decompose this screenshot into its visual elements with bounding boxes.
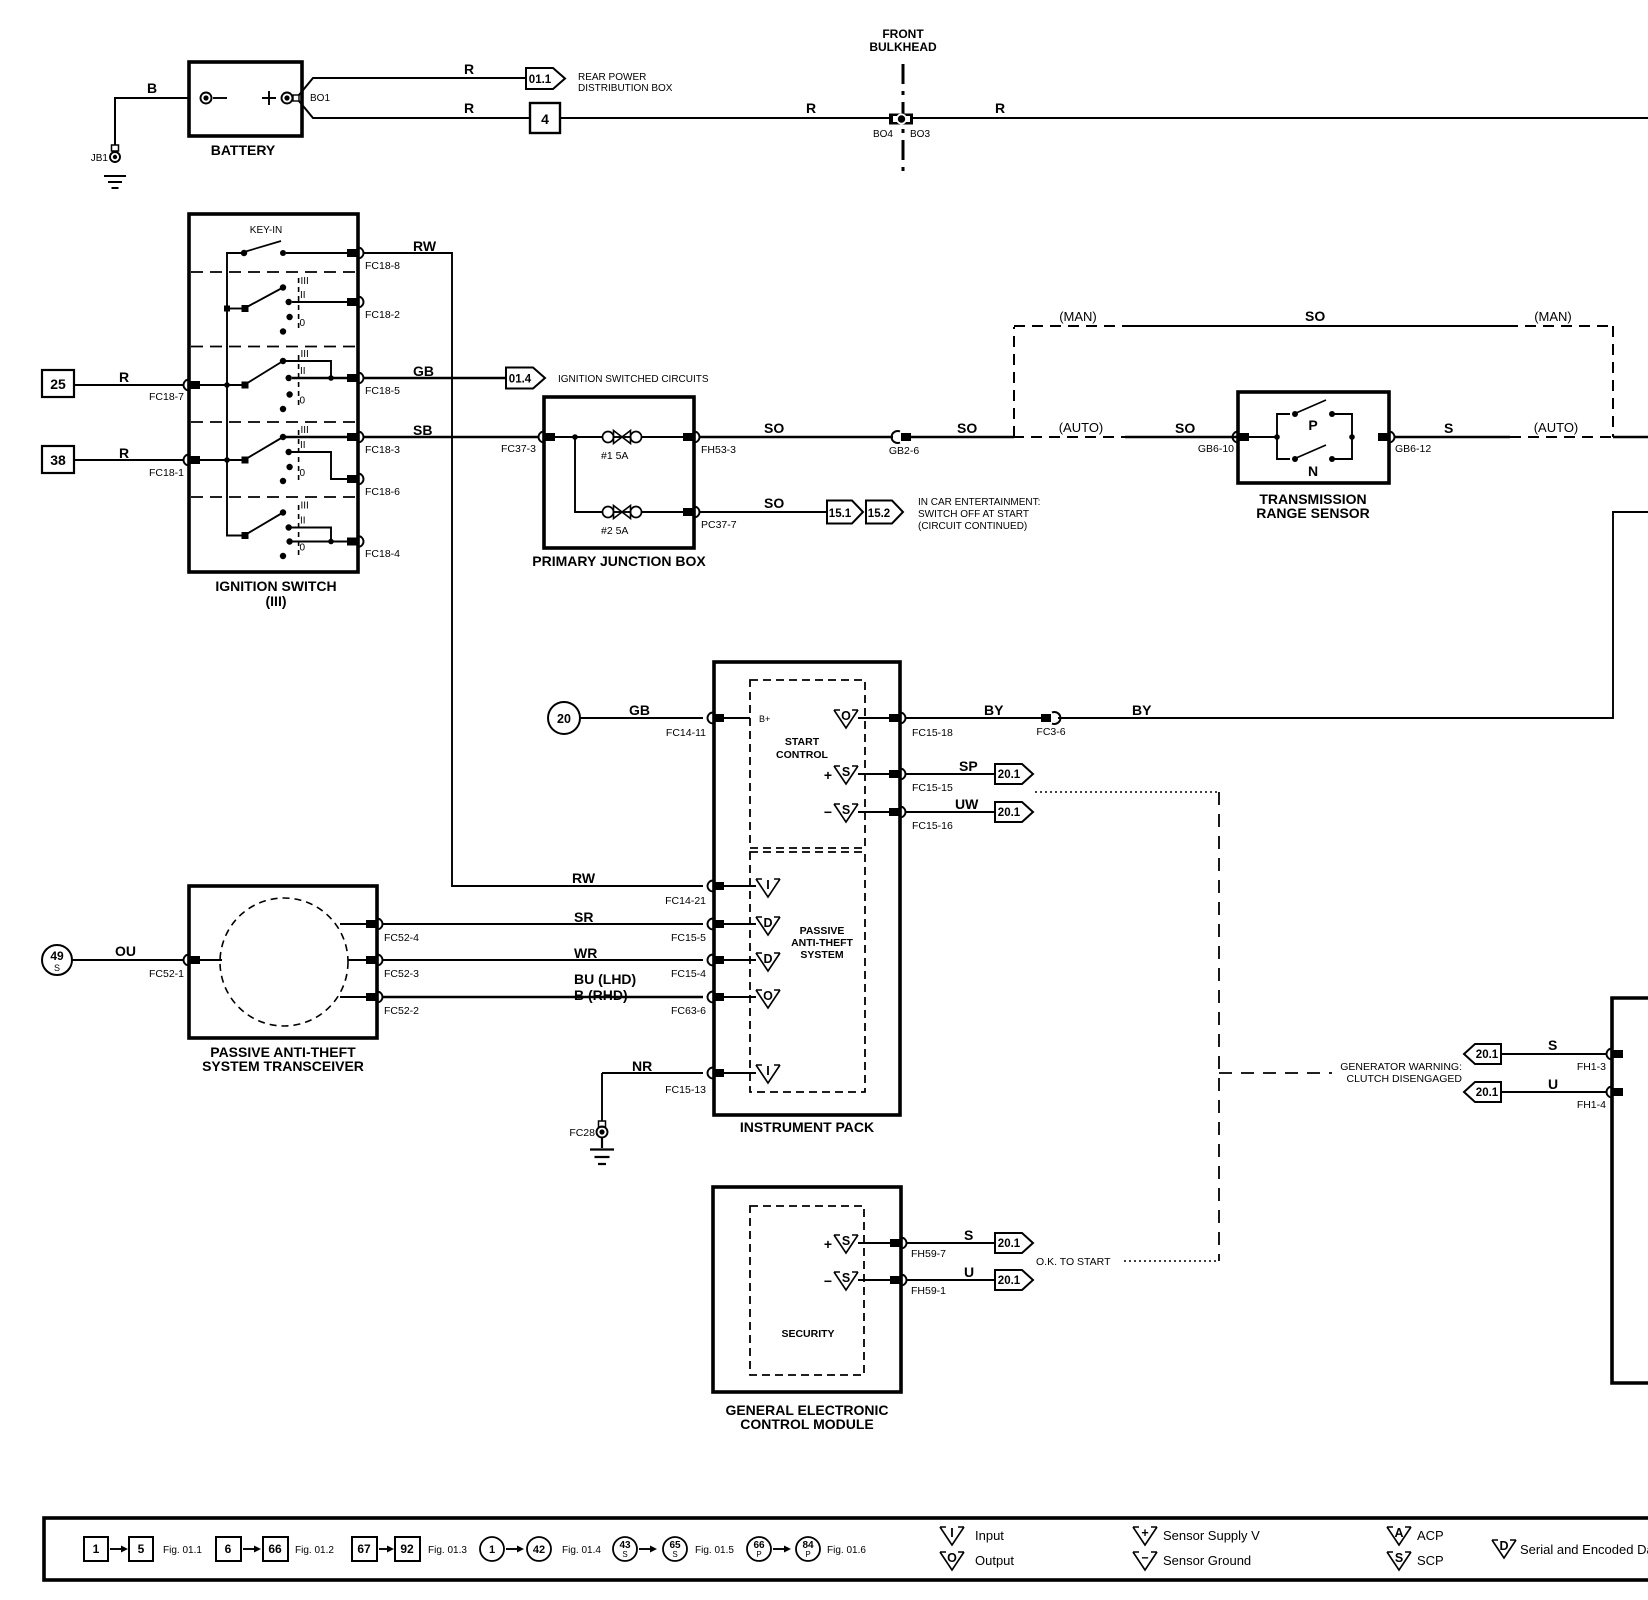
connector 20.1 (SP) <box>995 764 1033 784</box>
svg-text:P: P <box>805 1550 810 1559</box>
connector 20.1 (S) <box>995 1233 1033 1253</box>
svg-text:FRONT: FRONT <box>882 27 924 41</box>
svg-text:IGNITION SWITCH: IGNITION SWITCH <box>215 578 336 594</box>
svg-text:FC18-4: FC18-4 <box>365 548 400 560</box>
svg-text:S: S <box>1444 420 1453 436</box>
svg-text:U: U <box>964 1264 974 1280</box>
svg-text:1: 1 <box>489 1544 495 1556</box>
svg-text:FC37-3: FC37-3 <box>501 443 536 455</box>
svg-text:S: S <box>964 1227 973 1243</box>
serial data symbol D (SR) <box>756 916 780 935</box>
svg-text:+: + <box>824 1236 832 1252</box>
svg-text:FC14-11: FC14-11 <box>666 727 706 739</box>
link dashed branch (generator warning) <box>1219 1072 1332 1074</box>
svg-text:FC52-3: FC52-3 <box>384 968 419 980</box>
svg-text:SO: SO <box>957 420 977 436</box>
svg-text:GB6-10: GB6-10 <box>1198 443 1234 455</box>
wire RW from FC18-8 down to instrument pack <box>363 238 703 886</box>
svg-text:(CIRCUIT CONTINUED): (CIRCUIT CONTINUED) <box>918 521 1027 532</box>
legend input symbol <box>940 1526 1004 1545</box>
svg-text:FH59-7: FH59-7 <box>911 1248 946 1260</box>
svg-text:S: S <box>1395 1551 1403 1565</box>
connector 20.1 (UW) <box>995 802 1033 822</box>
battery negative terminal <box>201 93 228 104</box>
connector 20.1 (U) <box>995 1270 1033 1290</box>
svg-text:6: 6 <box>225 1542 232 1556</box>
svg-text:B: B <box>147 80 157 96</box>
svg-text:FC18-6: FC18-6 <box>365 486 400 498</box>
front bulkhead <box>869 27 937 172</box>
svg-text:FC15-15: FC15-15 <box>912 782 953 794</box>
svg-text:20.1: 20.1 <box>1476 1049 1499 1061</box>
legend item fig 01.5 <box>613 1537 734 1561</box>
svg-text:RW: RW <box>572 870 596 886</box>
transceiver coil (dashed circle) <box>220 898 348 1026</box>
svg-text:BO1: BO1 <box>310 93 330 104</box>
svg-text:Sensor Supply V: Sensor Supply V <box>1163 1528 1260 1543</box>
pin FC15-15 <box>889 769 953 795</box>
sensor supply symbol +S (security) <box>824 1234 890 1253</box>
svg-text:R: R <box>119 369 129 385</box>
svg-text:Input: Input <box>975 1528 1004 1543</box>
wire SP to 20.1 <box>905 758 995 774</box>
svg-text:ANTI-THEFT: ANTI-THEFT <box>791 937 853 949</box>
svg-text:P: P <box>1308 417 1317 433</box>
svg-text:U: U <box>1548 1076 1558 1092</box>
svg-text:−: − <box>824 1273 832 1289</box>
svg-text:IN CAR ENTERTAINMENT:: IN CAR ENTERTAINMENT: <box>918 497 1040 508</box>
svg-text:FC28: FC28 <box>569 1127 595 1139</box>
svg-text:20.1: 20.1 <box>998 1238 1021 1250</box>
svg-text:Fig. 01.2: Fig. 01.2 <box>295 1545 334 1556</box>
wire (AUTO) SO to transmission range sensor <box>1013 420 1239 437</box>
svg-text:Output: Output <box>975 1553 1014 1568</box>
svg-text:R: R <box>995 100 1005 116</box>
pin GB6-12 <box>1378 432 1431 456</box>
svg-text:GB2-6: GB2-6 <box>889 445 920 457</box>
svg-text:KEY-IN: KEY-IN <box>250 225 282 236</box>
svg-text:REAR POWER: REAR POWER <box>578 72 646 83</box>
svg-text:20.1: 20.1 <box>998 807 1021 819</box>
ignition switch section 2 <box>224 276 347 335</box>
svg-text:0: 0 <box>300 396 306 407</box>
svg-text:38: 38 <box>50 452 66 468</box>
primary junction box <box>532 397 706 569</box>
svg-text:GB: GB <box>413 363 434 379</box>
link dotted line (O.K. TO START) <box>1124 1260 1219 1262</box>
pin FC15-4 <box>671 955 756 981</box>
svg-text:Fig. 01.5: Fig. 01.5 <box>695 1545 734 1556</box>
svg-text:II: II <box>300 290 306 301</box>
pin FC14-21 <box>665 881 756 908</box>
svg-text:GENERATOR WARNING:: GENERATOR WARNING: <box>1340 1061 1462 1073</box>
svg-text:SO: SO <box>1305 308 1325 324</box>
svg-text:NR: NR <box>632 1058 652 1074</box>
legend sensor supply symbol <box>1133 1526 1260 1545</box>
svg-text:O: O <box>841 709 851 723</box>
wire BY to FC3-6 <box>905 702 1041 718</box>
svg-text:1: 1 <box>93 1542 100 1556</box>
junction node in junction box <box>555 434 602 512</box>
legend ACP symbol <box>1387 1526 1444 1545</box>
passive anti-theft system block <box>750 852 865 1092</box>
svg-text:(AUTO): (AUTO) <box>1534 420 1579 435</box>
battery positive terminal <box>262 91 293 105</box>
svg-text:WR: WR <box>574 945 597 961</box>
svg-text:(MAN): (MAN) <box>1534 309 1572 324</box>
svg-text:FC15-13: FC15-13 <box>665 1084 706 1096</box>
switch P <box>1249 400 1352 440</box>
svg-text:+: + <box>824 767 832 783</box>
legend SCP symbol <box>1387 1551 1444 1570</box>
svg-text:20.1: 20.1 <box>998 769 1021 781</box>
pin FC18-7 <box>149 380 200 404</box>
svg-text:92: 92 <box>400 1542 414 1556</box>
connector box 25 <box>42 370 74 397</box>
svg-text:FC52-4: FC52-4 <box>384 932 419 944</box>
svg-text:IGNITION SWITCHED CIRCUITS: IGNITION SWITCHED CIRCUITS <box>558 374 709 385</box>
svg-text:01.1: 01.1 <box>529 74 552 86</box>
svg-text:GB6-12: GB6-12 <box>1395 443 1431 455</box>
svg-text:S: S <box>672 1550 677 1559</box>
svg-text:R: R <box>119 445 129 461</box>
svg-text:B (RHD): B (RHD) <box>574 987 628 1003</box>
svg-text:20.1: 20.1 <box>1476 1087 1499 1099</box>
wire NR <box>602 1058 703 1121</box>
svg-text:4: 4 <box>541 111 549 127</box>
fuse #2 5A <box>601 506 683 538</box>
svg-text:FC18-8: FC18-8 <box>365 260 400 272</box>
sensor ground symbol -S (security) <box>824 1271 890 1290</box>
svg-text:49: 49 <box>50 949 64 963</box>
svg-text:25: 25 <box>50 376 66 392</box>
start control block <box>750 680 865 848</box>
connector 15.1 <box>827 501 863 524</box>
pin FC37-3 <box>501 432 555 456</box>
svg-text:S: S <box>842 1271 850 1285</box>
svg-text:CONTROL: CONTROL <box>776 749 828 761</box>
eyelet JB1 <box>91 145 120 164</box>
wire S from GB6-12 <box>1394 420 1648 437</box>
svg-text:A: A <box>1394 1526 1403 1540</box>
svg-text:BY: BY <box>1132 702 1152 718</box>
legend sensor ground symbol <box>1133 1551 1251 1570</box>
pin FC63-6 <box>671 992 756 1018</box>
wire U to FH1-4 <box>1501 1076 1607 1092</box>
legend serial data symbol <box>1492 1539 1648 1558</box>
svg-text:START: START <box>785 736 820 748</box>
pin FC52-3 <box>348 955 419 981</box>
svg-text:PRIMARY JUNCTION BOX: PRIMARY JUNCTION BOX <box>532 553 706 569</box>
svg-text:+: + <box>1141 1526 1148 1540</box>
wire GB from 20 to FC14-11 <box>580 702 703 718</box>
wire BU/B from transceiver <box>382 971 703 1003</box>
svg-text:15.1: 15.1 <box>829 508 852 520</box>
svg-text:BATTERY: BATTERY <box>211 142 276 158</box>
wire UW to 20.1 <box>905 796 995 812</box>
pin FC52-1 <box>149 955 222 981</box>
svg-text:III: III <box>301 276 309 287</box>
svg-text:I: I <box>766 1064 769 1078</box>
wire U to 20.1 <box>906 1264 995 1280</box>
ground (instrument pack) <box>590 1138 614 1165</box>
svg-text:RW: RW <box>413 238 437 254</box>
connector 01.1 <box>526 68 673 94</box>
svg-text:I: I <box>950 1526 953 1540</box>
fuse #1 5A <box>601 431 683 463</box>
connector 4 <box>530 103 560 133</box>
legend item fig 01.1 <box>84 1537 202 1561</box>
svg-text:SO: SO <box>1175 420 1195 436</box>
wire R to connector 4 <box>299 100 530 118</box>
pin FH59-7 <box>890 1238 946 1261</box>
wire SB to primary junction box <box>363 422 539 438</box>
wire SO from PC37-7 to 15.1 <box>699 495 827 512</box>
pin FC15-5 <box>671 919 756 945</box>
svg-text:01.4: 01.4 <box>509 374 532 386</box>
pin FC15-18 <box>889 713 953 740</box>
svg-text:O: O <box>763 989 773 1003</box>
sensor ground symbol -S (start control) <box>824 803 889 822</box>
svg-text:FC63-6: FC63-6 <box>671 1005 706 1017</box>
connector GB2-6 <box>889 431 920 457</box>
pin PC37-7 <box>683 507 737 532</box>
svg-text:66: 66 <box>268 1542 282 1556</box>
svg-text:DISTRIBUTION BOX: DISTRIBUTION BOX <box>578 83 673 94</box>
svg-text:20: 20 <box>557 712 571 726</box>
node 49 S <box>42 945 72 975</box>
ignition switch section 4 <box>200 425 347 484</box>
svg-text:O: O <box>947 1551 957 1565</box>
svg-text:CONTROL MODULE: CONTROL MODULE <box>740 1416 874 1432</box>
svg-text:BO4: BO4 <box>873 129 893 140</box>
svg-text:FC18-5: FC18-5 <box>365 385 400 397</box>
svg-text:SB: SB <box>413 422 432 438</box>
svg-text:JB1: JB1 <box>91 153 109 164</box>
pin FC18-3 <box>347 432 400 457</box>
svg-text:SWITCH OFF AT START: SWITCH OFF AT START <box>918 509 1029 520</box>
starter relay box (edge) <box>1612 998 1648 1383</box>
pin FC18-5 <box>347 373 400 398</box>
pin FC18-8 <box>347 248 400 273</box>
connector box 38 <box>42 446 74 473</box>
svg-text:FC18-7: FC18-7 <box>149 391 184 403</box>
svg-text:(MAN): (MAN) <box>1059 309 1097 324</box>
svg-text:(AUTO): (AUTO) <box>1059 420 1104 435</box>
svg-text:Fig. 01.6: Fig. 01.6 <box>827 1545 866 1556</box>
wire BY to right edge <box>1058 512 1648 718</box>
svg-text:0: 0 <box>300 318 306 329</box>
connector 01.4 <box>506 368 709 389</box>
svg-text:II: II <box>300 516 306 527</box>
svg-text:FC14-21: FC14-21 <box>665 895 706 907</box>
svg-text:FH1-4: FH1-4 <box>1577 1099 1606 1111</box>
svg-text:Fig. 01.1: Fig. 01.1 <box>163 1545 202 1556</box>
svg-text:FC15-18: FC15-18 <box>912 727 953 739</box>
legend output symbol <box>940 1551 1014 1570</box>
svg-text:Fig. 01.3: Fig. 01.3 <box>428 1545 467 1556</box>
pin FH1-4 <box>1577 1087 1623 1112</box>
svg-text:D: D <box>763 916 772 930</box>
svg-text:UW: UW <box>955 796 979 812</box>
svg-text:R: R <box>464 100 474 116</box>
pin FC18-2 <box>347 297 400 322</box>
svg-text:BY: BY <box>984 702 1004 718</box>
ground (battery) <box>104 176 126 188</box>
pin FC15-13 <box>665 1068 756 1097</box>
svg-text:III: III <box>301 349 309 360</box>
legend item fig 01.4 <box>480 1537 601 1561</box>
svg-text:S: S <box>842 1234 850 1248</box>
switch N <box>1277 434 1355 479</box>
link dotted line (SP/UW pair) <box>1035 791 1219 793</box>
note GENERATOR WARNING <box>1340 1061 1462 1085</box>
svg-text:SYSTEM: SYSTEM <box>800 949 843 961</box>
pin FC18-1 <box>149 455 200 480</box>
svg-text:ACP: ACP <box>1417 1528 1444 1543</box>
svg-text:S: S <box>842 803 850 817</box>
svg-text:FH59-1: FH59-1 <box>911 1285 946 1297</box>
legend item fig 01.3 <box>352 1537 467 1561</box>
pin FC15-16 <box>889 807 953 833</box>
serial data symbol D (WR) <box>756 952 780 971</box>
svg-text:FC15-5: FC15-5 <box>671 932 706 944</box>
input symbol I (NR) <box>756 1064 780 1083</box>
wire SO to split <box>911 420 1014 437</box>
svg-text:R: R <box>806 100 816 116</box>
svg-text:−: − <box>1141 1551 1148 1565</box>
instrument pack box <box>714 662 900 1135</box>
svg-text:SO: SO <box>764 420 784 436</box>
wire R from 38 to FC18-1 <box>74 445 184 461</box>
svg-text:D: D <box>1499 1539 1508 1553</box>
svg-text:SO: SO <box>764 495 784 511</box>
wire B from battery to JB1 <box>115 80 189 145</box>
svg-text:−: − <box>824 804 832 820</box>
pin FC18-4 <box>347 536 400 560</box>
svg-text:II: II <box>300 440 306 451</box>
svg-text:67: 67 <box>357 1542 371 1556</box>
connector BO1 <box>293 93 330 104</box>
svg-text:5: 5 <box>138 1542 145 1556</box>
svg-text:FC18-1: FC18-1 <box>149 467 184 479</box>
battery <box>189 62 302 158</box>
wire OU <box>72 943 184 960</box>
svg-text:FH53-3: FH53-3 <box>701 444 736 456</box>
svg-text:OU: OU <box>115 943 136 959</box>
security block <box>750 1206 864 1375</box>
svg-text:#1 5A: #1 5A <box>601 450 628 462</box>
svg-text:SYSTEM TRANSCEIVER: SYSTEM TRANSCEIVER <box>202 1058 364 1074</box>
ignition switch box <box>189 214 358 609</box>
svg-text:D: D <box>763 952 772 966</box>
svg-text:R: R <box>464 61 474 77</box>
svg-text:I: I <box>766 878 769 892</box>
legend item fig 01.2 <box>216 1537 334 1561</box>
svg-text:O.K. TO START: O.K. TO START <box>1036 1256 1111 1268</box>
wire R from 25 to FC18-7 <box>74 369 184 385</box>
svg-text:III: III <box>301 501 309 512</box>
ignition switch common bus wire <box>227 253 244 536</box>
svg-text:FC52-2: FC52-2 <box>384 1005 419 1017</box>
wire S to 20.1 <box>906 1227 995 1243</box>
svg-text:FC52-1: FC52-1 <box>149 968 184 980</box>
pin FH1-3 <box>1577 1049 1623 1074</box>
svg-text:Sensor Ground: Sensor Ground <box>1163 1553 1251 1568</box>
general electronic control module box <box>713 1187 901 1432</box>
passive anti-theft system transceiver box <box>189 886 377 1074</box>
svg-text:B+: B+ <box>759 714 770 724</box>
ignition switch section 3 <box>200 349 347 412</box>
link dashed vertical <box>1218 792 1220 1261</box>
svg-text:FC15-16: FC15-16 <box>912 820 953 832</box>
connector 15.2 <box>866 497 1040 532</box>
svg-text:20.1: 20.1 <box>998 1275 1021 1287</box>
pin FH53-3 <box>683 432 736 457</box>
svg-text:BULKHEAD: BULKHEAD <box>869 40 937 54</box>
svg-text:N: N <box>1308 463 1318 479</box>
svg-text:0: 0 <box>300 468 306 479</box>
wire GB to 01.4 <box>363 363 506 379</box>
svg-text:BO3: BO3 <box>910 129 930 140</box>
svg-text:SP: SP <box>959 758 978 774</box>
node 20 <box>548 702 580 734</box>
svg-text:III: III <box>301 425 309 436</box>
svg-text:CLUTCH DISENGAGED: CLUTCH DISENGAGED <box>1346 1073 1462 1085</box>
legend box <box>44 1518 1648 1580</box>
key-in switch <box>241 225 347 256</box>
wire R to rear power distribution box <box>299 61 526 95</box>
svg-text:SECURITY: SECURITY <box>781 1328 834 1340</box>
transmission range sensor box <box>1238 392 1389 521</box>
svg-text:PASSIVE: PASSIVE <box>800 925 845 937</box>
svg-text:FC15-4: FC15-4 <box>671 968 706 980</box>
ignition switch section 5 <box>227 501 347 560</box>
svg-text:S: S <box>842 765 850 779</box>
legend item fig 01.6 <box>747 1537 866 1561</box>
svg-text:P: P <box>756 1550 761 1559</box>
wire (MAN) SO bypass path <box>1014 308 1613 437</box>
pin GB6-10 <box>1198 432 1249 456</box>
svg-text:S: S <box>54 963 60 973</box>
svg-text:RANGE SENSOR: RANGE SENSOR <box>1256 505 1370 521</box>
svg-text:GB: GB <box>629 702 650 718</box>
sensor supply symbol +S (start control) <box>824 765 889 784</box>
svg-text:FC3-6: FC3-6 <box>1036 726 1065 738</box>
pin FC14-11 <box>666 713 770 740</box>
output symbol O (PATS) <box>756 989 780 1008</box>
svg-text:INSTRUMENT PACK: INSTRUMENT PACK <box>740 1119 874 1135</box>
pin FC52-2 <box>340 992 419 1018</box>
input symbol I (RW) <box>756 878 780 897</box>
svg-text:0: 0 <box>300 543 306 554</box>
wire SO from FH53-3 <box>699 420 893 437</box>
svg-text:#2 5A: #2 5A <box>601 525 628 537</box>
pin FC52-4 <box>340 919 419 945</box>
svg-text:42: 42 <box>533 1544 545 1556</box>
svg-text:Fig. 01.4: Fig. 01.4 <box>562 1545 601 1556</box>
svg-text:BU (LHD): BU (LHD) <box>574 971 636 987</box>
connector 20.1 (generator U) <box>1464 1082 1501 1102</box>
output symbol O (start control) <box>834 709 889 728</box>
svg-text:S: S <box>622 1550 627 1559</box>
svg-text:Serial and Encoded Data: Serial and Encoded Data <box>1520 1542 1648 1557</box>
svg-text:S: S <box>1548 1037 1557 1053</box>
wire SR from transceiver <box>382 909 703 925</box>
svg-text:SR: SR <box>574 909 593 925</box>
wire WR from transceiver <box>382 945 703 961</box>
pin FH59-1 <box>890 1275 946 1298</box>
